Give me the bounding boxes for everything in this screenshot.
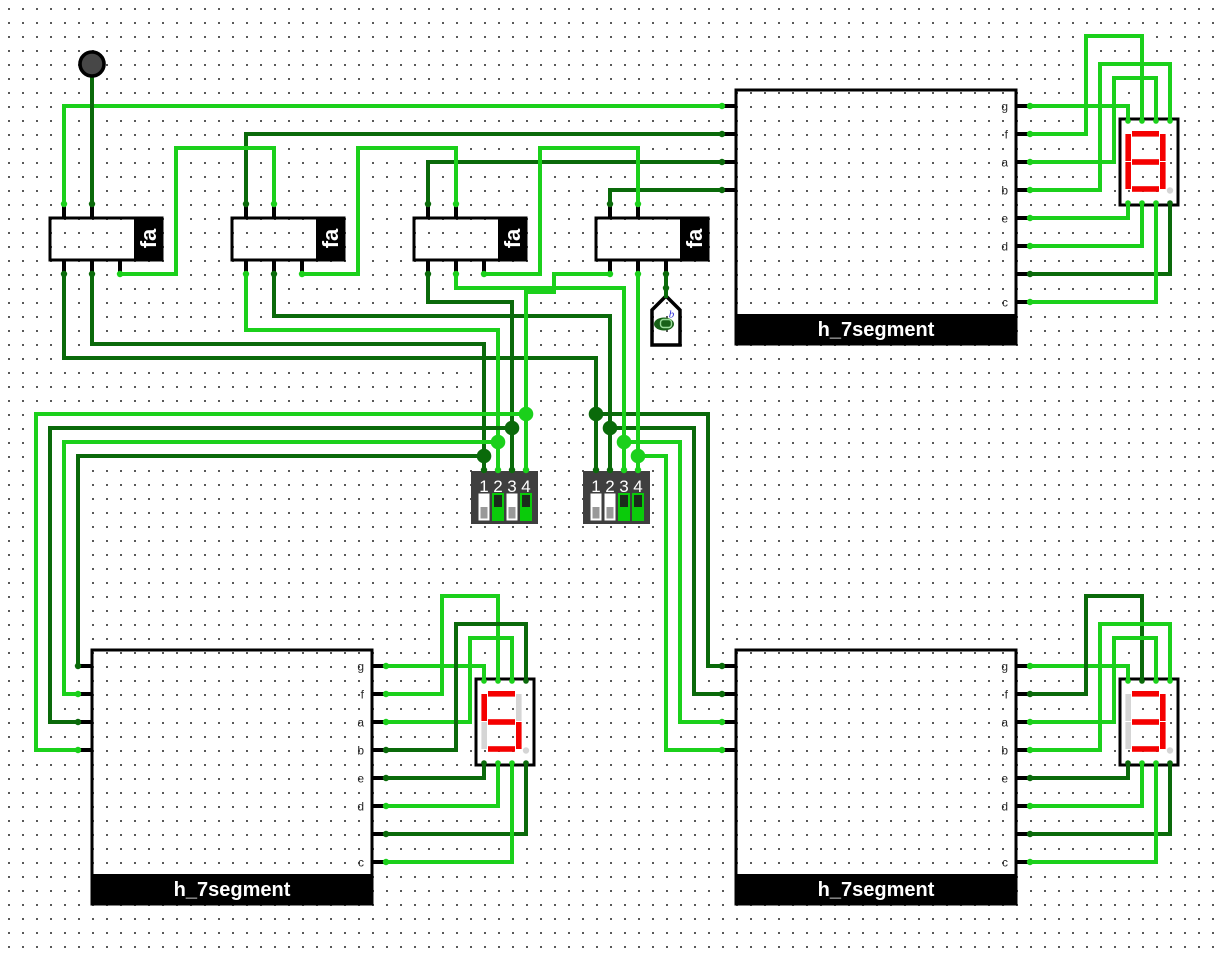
- svg-text:b: b: [1001, 184, 1008, 198]
- svg-text:b: b: [1001, 744, 1008, 758]
- svg-text:e: e: [1001, 772, 1008, 786]
- wire net carry c2 (fa2 to fa3): [302, 148, 456, 274]
- svg-text:h_7segment: h_7segment: [174, 879, 291, 901]
- svg-text:1: 1: [591, 477, 600, 496]
- wire net b3 (fa3-S1.3-U2 pin3): [50, 274, 512, 722]
- wire U1.dp to DISP1: [1030, 202, 1170, 274]
- junction node (596,414): [589, 407, 604, 422]
- wire net a4 (fa4-S2.4-U3 pin4): [638, 274, 722, 750]
- full-adder fa1 body: [50, 217, 164, 262]
- junction node (484,456): [477, 449, 492, 464]
- svg-text:1: 1: [479, 477, 488, 496]
- wire U3.d to DISP3: [1030, 762, 1142, 806]
- wire U2.c to DISP2: [386, 762, 512, 862]
- input button cin: [80, 52, 104, 76]
- wire net s0 (fa1 sum to U1 pin g): [64, 106, 722, 204]
- junction node (624,442): [617, 435, 632, 450]
- junction node (498,442): [491, 435, 506, 450]
- wire U1.a to DISP1: [1030, 78, 1156, 162]
- wire U1.g to DISP1: [1030, 106, 1128, 122]
- DIP switch S1 value 0101: [471, 471, 538, 524]
- svg-text:b: b: [357, 744, 364, 758]
- svg-text:c: c: [1002, 856, 1008, 870]
- svg-text:a: a: [357, 716, 364, 730]
- junction node (638,456): [631, 449, 646, 464]
- wire U3.dp to DISP3: [1030, 762, 1170, 834]
- wire U1.c to DISP1: [1030, 202, 1156, 302]
- subcircuit U1-top-right h_7segment body: [735, 90, 1018, 344]
- wire U2.e to DISP2: [386, 762, 484, 778]
- svg-text:fa: fa: [682, 228, 707, 248]
- wire U2.b to DISP2: [386, 624, 526, 750]
- svg-text:g: g: [357, 660, 364, 674]
- svg-text:d: d: [1001, 800, 1008, 814]
- svg-text:fa: fa: [500, 228, 525, 248]
- carry-out indicator tag b: [652, 296, 680, 345]
- svg-text:a: a: [1001, 716, 1008, 730]
- wire net cin0 (input to fa1): [90, 66, 94, 204]
- svg-text:c: c: [358, 856, 364, 870]
- full-adder fa2 body: [232, 217, 346, 262]
- wire U2.f to DISP2: [386, 596, 498, 694]
- wire U3.c to DISP3: [1030, 762, 1156, 862]
- wire U2.dp to DISP2: [386, 762, 526, 834]
- subcircuit U2-bottom-left h_7segment body: [91, 650, 374, 904]
- junction node (526,414): [519, 407, 534, 422]
- junction node (512,428): [505, 421, 520, 436]
- svg-text:c: c: [1002, 296, 1008, 310]
- wire U3.a to DISP3: [1030, 638, 1156, 722]
- svg-text:fa: fa: [136, 228, 161, 248]
- svg-text:d: d: [357, 800, 364, 814]
- svg-text:g: g: [1001, 660, 1008, 674]
- wire U1.e to DISP1: [1030, 202, 1128, 218]
- svg-text:h_7segment: h_7segment: [818, 319, 935, 341]
- wire net carry c4 (fa4 to tag b): [664, 274, 668, 298]
- svg-text:d: d: [1001, 240, 1008, 254]
- svg-text:a: a: [1001, 156, 1008, 170]
- wire net s2 (fa3 sum to U1 pin a): [428, 162, 722, 204]
- svg-text:2: 2: [605, 477, 614, 496]
- wire U3.g to DISP3: [1030, 666, 1128, 682]
- wire net a3 (fa3-S2.3-U3 pin3): [456, 274, 722, 722]
- pin connection dots: [61, 103, 1173, 865]
- wire net carry c3 (fa3 to fa4): [484, 148, 638, 274]
- wire U1.d to DISP1: [1030, 202, 1142, 246]
- wire U3.b to DISP3: [1030, 624, 1170, 750]
- wire net s1 (fa2 sum to U1 pin f): [246, 134, 722, 204]
- full-adder fa4 body: [596, 217, 710, 262]
- wire net b2 (fa2-S1.2-U2 pin2): [64, 274, 498, 694]
- wire U2.d to DISP2: [386, 762, 498, 806]
- svg-text:fa: fa: [318, 228, 343, 248]
- DIP switch S2 value 0011: [583, 471, 650, 524]
- wire net carry c1 (fa1 to fa2): [120, 148, 274, 274]
- wire net b4 (fa4-S1.4-U2 pin4): [36, 274, 610, 750]
- junction node (610,428): [603, 421, 618, 436]
- wire U3.f to DISP3: [1030, 596, 1142, 694]
- wire net s3 (fa4 sum to U1 pin b): [610, 190, 722, 204]
- subcircuit U3-bottom-right h_7segment body: [735, 650, 1018, 904]
- wire U1.f to DISP1: [1030, 36, 1142, 134]
- 7-segment display DISP3 showing 3: [1120, 679, 1178, 765]
- 7-segment display DISP1 showing 8: [1120, 119, 1178, 205]
- svg-text:e: e: [357, 772, 364, 786]
- 7-segment display DISP2 showing 5: [476, 679, 534, 765]
- svg-text:3: 3: [507, 477, 516, 496]
- svg-text:e: e: [1001, 212, 1008, 226]
- svg-text:h_7segment: h_7segment: [818, 879, 935, 901]
- wire U2.a to DISP2: [386, 638, 512, 722]
- wire U2.g to DISP2: [386, 666, 484, 682]
- wire net b1 (fa1-S1.1-U2 pin1): [78, 274, 484, 666]
- wire U3.e to DISP3: [1030, 762, 1128, 778]
- component pin stubs: [64, 106, 1030, 862]
- svg-text:b: b: [669, 309, 675, 321]
- wire net a2 (fa2-S2.2-U3 pin2): [274, 274, 722, 694]
- wire net a1 (fa1-S2.1-U3 pin1): [64, 274, 722, 666]
- svg-text:g: g: [1001, 100, 1008, 114]
- full-adder fa3 body: [414, 217, 528, 262]
- wire U1.b to DISP1: [1030, 64, 1170, 190]
